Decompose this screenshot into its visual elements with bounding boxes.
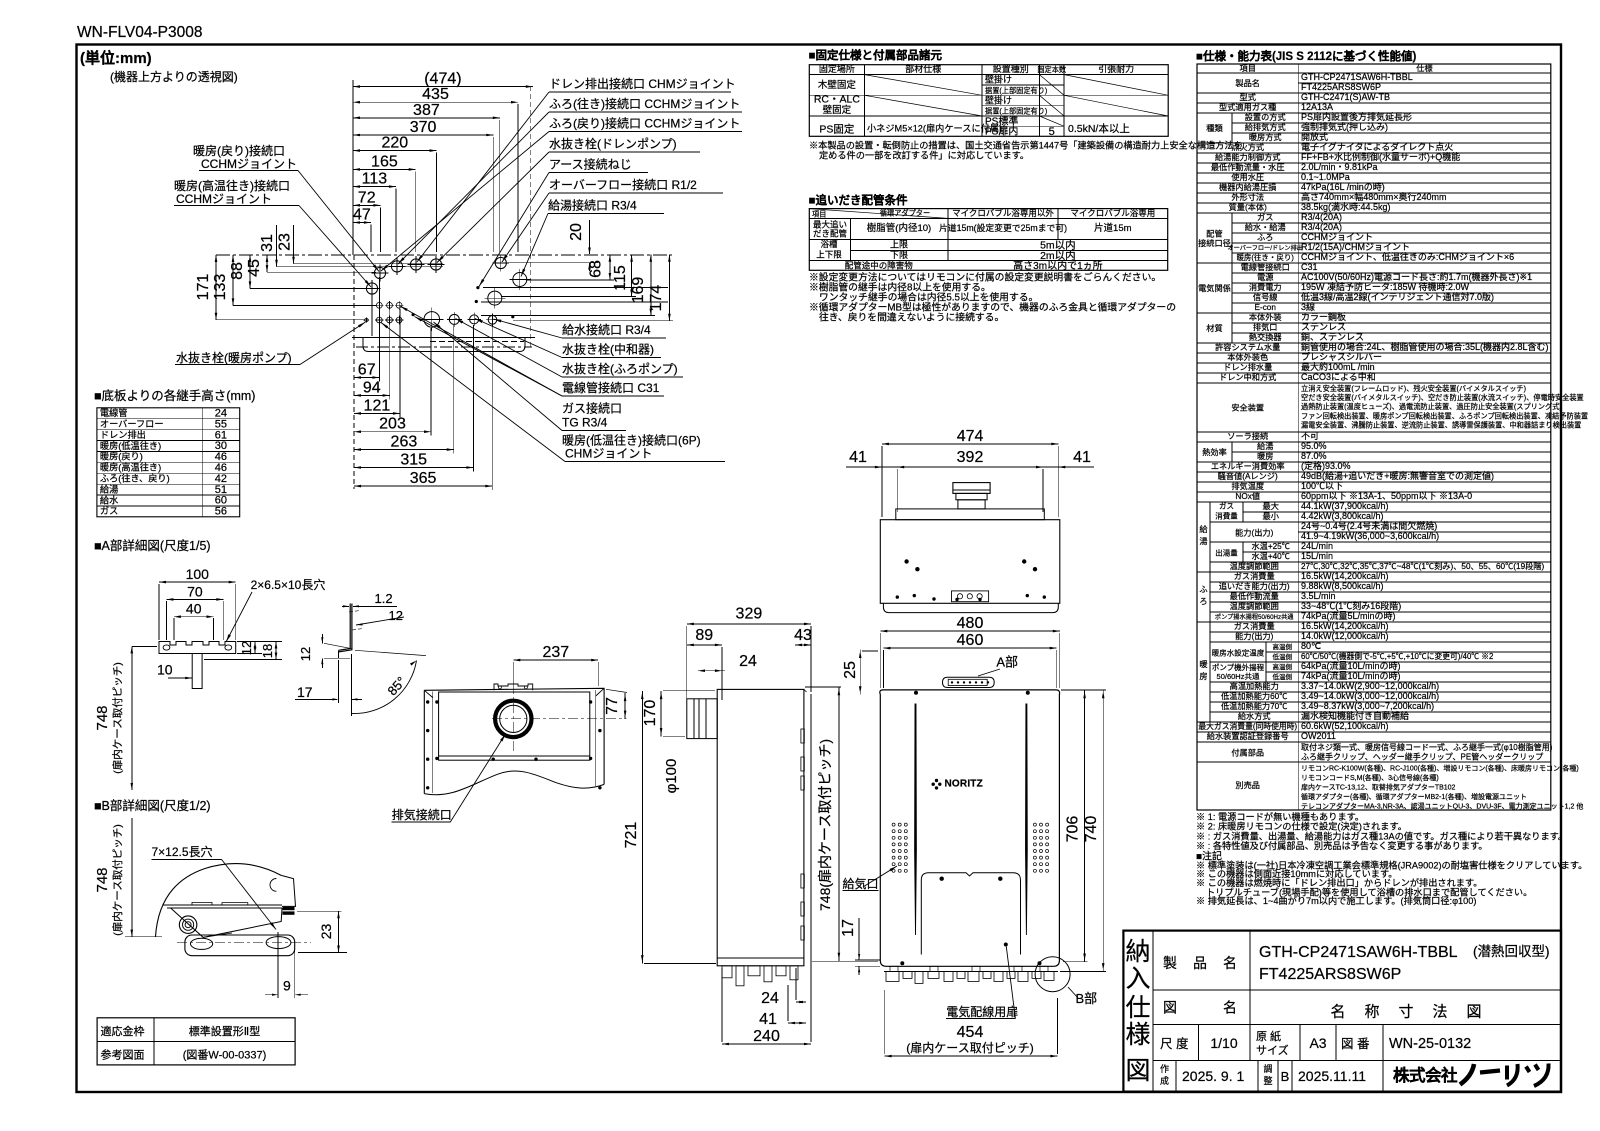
svg-text:往き、戻りを間違えないように接続する。: 往き、戻りを間違えないように接続する。 — [819, 311, 1004, 324]
side dim 24 bottom — [796, 1001, 806, 1003]
svg-text:CHMジョイント: CHMジョイント — [565, 447, 652, 461]
svg-text:NOx値: NOx値 — [1235, 491, 1260, 501]
svg-text:748(扉内ケース取付ピッチ): 748(扉内ケース取付ピッチ) — [817, 739, 833, 911]
svg-text:ソーラ接続: ソーラ接続 — [1227, 431, 1268, 441]
svg-text:40: 40 — [186, 601, 202, 617]
side dim 240 bottom — [722, 1043, 811, 1045]
svg-text:暖房水設定温度: 暖房水設定温度 — [1212, 648, 1265, 658]
joint height table — [97, 408, 240, 517]
svg-text:240: 240 — [753, 1028, 780, 1045]
svg-text:暖: 暖 — [1199, 660, 1207, 669]
svg-text:113: 113 — [362, 171, 388, 188]
svg-text:給水装置認証登録番号: 給水装置認証登録番号 — [1207, 731, 1289, 741]
drain plug hole — [365, 318, 369, 322]
svg-text:PS扉内設置後方排気延長形: PS扉内設置後方排気延長形 — [1301, 111, 1412, 122]
svg-text:暖房(往き・戻り): 暖房(往き・戻り) — [1236, 252, 1294, 262]
svg-text:※ 1: 電源コードが無い機種もあります。: ※ 1: 電源コードが無い機種もあります。 — [1196, 811, 1364, 822]
svg-text:部材仕様: 部材仕様 — [905, 63, 941, 74]
svg-text:ドレン排出: ドレン排出 — [100, 429, 146, 440]
svg-text:50/60Hz共通: 50/60Hz共通 — [1217, 671, 1260, 681]
svg-text:ステンレス: ステンレス — [1301, 322, 1346, 332]
svg-text:浴槽: 浴槽 — [820, 239, 838, 249]
top view dim 474 — [882, 443, 1058, 445]
dim 94 bottom — [354, 394, 390, 396]
svg-text:89: 89 — [695, 627, 713, 644]
svg-text:循環アダプター: 循環アダプター — [880, 209, 930, 218]
dim 23 — [293, 225, 295, 264]
svg-text:12: 12 — [298, 647, 313, 661]
svg-text:外形寸法: 外形寸法 — [1231, 192, 1264, 202]
svg-text:72: 72 — [358, 189, 376, 206]
svg-text:170: 170 — [642, 700, 659, 727]
svg-text:※ 2: 床暖房リモコンの仕様で設定(決定)されます。: ※ 2: 床暖房リモコンの仕様で設定(決定)されます。 — [1196, 821, 1407, 832]
svg-text:435: 435 — [422, 86, 449, 103]
bottom tray lip — [363, 337, 525, 351]
svg-text:据置(上部固定有り): 据置(上部固定有り) — [985, 107, 1047, 116]
svg-text:熱交換器: 熱交換器 — [1249, 332, 1282, 342]
svg-text:70: 70 — [187, 583, 203, 599]
dim 387 top — [353, 117, 500, 119]
B-detail vertical pitch 748 — [131, 818, 133, 937]
svg-text:給水・給湯: 給水・給湯 — [1245, 222, 1286, 232]
svg-text:給湯: 給湯 — [100, 483, 118, 494]
dim 165 top — [353, 168, 416, 170]
svg-text:ドレン中和方式: ドレン中和方式 — [1219, 372, 1276, 382]
svg-text:配管: 配管 — [1206, 229, 1222, 239]
svg-text:3.49~14.0kW(3,000~12,000kcal/h: 3.49~14.0kW(3,000~12,000kcal/h) — [1301, 691, 1439, 701]
left dimension reference line — [352, 80, 354, 255]
svg-text:AC100V(50/60Hz)電源コード長さ:約1.7m(機: AC100V(50/60Hz)電源コード長さ:約1.7m(機器外長さ)※1 — [1301, 271, 1532, 282]
svg-text:■A部詳細図(尺度1/5): ■A部詳細図(尺度1/5) — [94, 538, 211, 553]
svg-text:68: 68 — [588, 260, 605, 278]
svg-text:60.6kW(52,100kcal/h): 60.6kW(52,100kcal/h) — [1301, 721, 1389, 731]
svg-text:41: 41 — [1073, 449, 1091, 466]
B部 circle — [1035, 957, 1070, 992]
svg-text:型式適用ガス種: 型式適用ガス種 — [1219, 102, 1276, 112]
svg-text:給湯接続口 R3/4: 給湯接続口 R3/4 — [548, 198, 637, 213]
svg-text:暖房(戻り): 暖房(戻り) — [100, 451, 143, 462]
svg-text:7×12.5長穴: 7×12.5長穴 — [152, 844, 213, 859]
svg-text:強制排気式(押し込み): 強制排気式(押し込み) — [1301, 121, 1388, 132]
svg-text:能力(出力): 能力(出力) — [1235, 528, 1273, 538]
dim 315 bottom — [354, 467, 473, 469]
svg-text:FT4225ARS8SW6P: FT4225ARS8SW6P — [1259, 966, 1401, 983]
svg-text:立消え安全装置(フレームロッド)、残火安全装置(バイメタルス: 立消え安全装置(フレームロッド)、残火安全装置(バイメタルスイッチ) — [1301, 384, 1526, 393]
svg-text:※ この機器は燃焼時に「ドレン排出口」からドレンが排出されま: ※ この機器は燃焼時に「ドレン排出口」からドレンが排出されます。 — [1196, 877, 1482, 888]
spec group 給湯 — [1209, 502, 1211, 572]
svg-text:電気関係: 電気関係 — [1198, 283, 1231, 293]
title block frame — [1123, 931, 1561, 1092]
extension line — [492, 137, 494, 252]
svg-text:9.88kW(8,500kcal/h): 9.88kW(8,500kcal/h) — [1301, 581, 1384, 591]
svg-text:電源: 電源 — [1257, 273, 1273, 282]
svg-text:A部: A部 — [996, 655, 1018, 670]
side exhaust duct — [687, 699, 717, 739]
svg-text:追いだき能力(出力): 追いだき能力(出力) — [1219, 581, 1290, 591]
side dim 24 — [698, 670, 725, 672]
svg-text:信号線: 信号線 — [1253, 292, 1278, 302]
svg-text:片道15m(設定変更で25mまで可): 片道15m(設定変更で25mまで可) — [939, 222, 1067, 233]
svg-text:空だき安全装置(バイメタルスイッチ)、空だき防止装置(水流ス: 空だき安全装置(バイメタルスイッチ)、空だき防止装置(水流スイッチ)、停電時安全… — [1301, 393, 1584, 402]
svg-text:房: 房 — [1199, 671, 1207, 681]
svg-text:温度調節範囲: 温度調節範囲 — [1230, 561, 1279, 571]
svg-text:ガス: ガス — [1257, 212, 1273, 222]
svg-text:64kPa(流量10L/minの時): 64kPa(流量10L/minの時) — [1301, 660, 1401, 671]
svg-text:付属部品: 付属部品 — [1231, 748, 1264, 758]
dim 31 — [276, 225, 278, 267]
svg-text:品: 品 — [1193, 955, 1207, 971]
header diagonal — [809, 209, 948, 219]
svg-text:オーバーフロー接続口 R1/2: オーバーフロー接続口 R1/2 — [549, 177, 697, 192]
svg-text:GTH-CP2471SAW6H-TBBL: GTH-CP2471SAW6H-TBBL — [1259, 944, 1458, 961]
svg-text:称: 称 — [1364, 1004, 1379, 1021]
svg-text:暖房(低温往き)接続口(6P): 暖房(低温往き)接続口(6P) — [562, 433, 701, 448]
svg-text:80℃: 80℃ — [1301, 641, 1321, 651]
svg-text:水温+40℃: 水温+40℃ — [1251, 551, 1289, 561]
side dim 41 bottom — [788, 1022, 806, 1024]
svg-text:暖房(低温往き): 暖房(低温往き) — [100, 440, 161, 451]
svg-text:消費電力: 消費電力 — [1249, 282, 1282, 292]
extension line — [430, 328, 432, 436]
svg-text:製品名: 製品名 — [1235, 78, 1260, 88]
extension line — [415, 171, 417, 252]
svg-text:169: 169 — [630, 277, 647, 304]
svg-text:※ : ガス消費量、出湯量、給湯能力はガス種13Aの値です: ※ : ガス消費量、出湯量、給湯能力はガス種13Aの値です。ガス種により若干異な… — [1196, 830, 1567, 841]
svg-text:(扉内ケース取付ピッチ): (扉内ケース取付ピッチ) — [906, 1041, 1033, 1055]
svg-text:水抜き栓(ふろポンプ): 水抜き栓(ふろポンプ) — [562, 361, 678, 376]
svg-text:テレコンアダプターMA-3,NR-3A、認湯ユニットQU-3: テレコンアダプターMA-3,NR-3A、認湯ユニットQU-3、DVU-3F、電力… — [1301, 802, 1583, 811]
wiring door — [921, 873, 1020, 955]
svg-text:31: 31 — [259, 234, 276, 252]
svg-text:本体外装: 本体外装 — [1249, 312, 1282, 322]
extension line — [436, 153, 438, 252]
svg-text:115: 115 — [612, 265, 629, 291]
svg-text:扉内ケースTC-13,12、取替排気アダプターTB102: 扉内ケースTC-13,12、取替排気アダプターTB102 — [1301, 783, 1456, 792]
svg-text:低温3線/高温2線(インテリジェント通信対7.0版): 低温3線/高温2線(インテリジェント通信対7.0版) — [1301, 291, 1494, 302]
svg-text:(機器上方よりの透視図): (機器上方よりの透視図) — [110, 69, 238, 84]
svg-text:27℃,30℃,32℃,35℃,37℃~48℃(1℃刻み)、: 27℃,30℃,32℃,35℃,37℃~48℃(1℃刻み)、50、55、60℃(… — [1301, 561, 1544, 571]
bottom holes — [449, 314, 459, 324]
svg-text:43: 43 — [794, 627, 812, 644]
top view inner dots — [904, 559, 908, 563]
svg-text:315: 315 — [400, 452, 427, 469]
svg-text:(定格)93.0%: (定格)93.0% — [1301, 460, 1351, 471]
svg-text:94: 94 — [363, 379, 381, 396]
svg-text:本体外装色: 本体外装色 — [1227, 352, 1268, 362]
svg-text:18: 18 — [260, 644, 275, 658]
svg-text:不可: 不可 — [1301, 431, 1319, 441]
svg-text:23: 23 — [277, 233, 294, 251]
spec group 熱効率 — [1231, 442, 1233, 462]
svg-text:給水: 給水 — [100, 494, 118, 505]
slot holes — [163, 645, 170, 650]
svg-text:図: 図 — [1125, 1057, 1150, 1085]
svg-text:別売品: 別売品 — [1235, 780, 1260, 790]
B right plate — [281, 875, 295, 906]
svg-text:点火方式: 点火方式 — [1231, 142, 1264, 152]
svg-text:B部: B部 — [1076, 991, 1098, 1006]
svg-text:(図番W-00-0337): (図番W-00-0337) — [183, 1049, 267, 1062]
rear top edge bevels — [424, 690, 432, 697]
svg-text:2.0L/min・9.81kPa: 2.0L/min・9.81kPa — [1301, 162, 1378, 172]
svg-text:だき配管: だき配管 — [813, 229, 847, 239]
svg-text:電線管接続口 C31: 電線管接続口 C31 — [562, 380, 660, 395]
connector lines right dims — [526, 279, 614, 281]
svg-text:ふ: ふ — [1199, 585, 1207, 594]
svg-text:3.37~14.0kW(2,900~12,000kcal/h: 3.37~14.0kW(2,900~12,000kcal/h) — [1301, 681, 1439, 691]
svg-text:排気温度: 排気温度 — [1231, 481, 1264, 491]
dim 263 bottom — [354, 449, 454, 451]
svg-text:リモコンRC-K100W(各種)、RC-J100(各種)、増: リモコンRC-K100W(各種)、RC-J100(各種)、増設リモコン(各種)、… — [1301, 764, 1579, 773]
exhaust centerlines — [512, 684, 514, 752]
svg-text:GTH-C2471(S)AW-TB: GTH-C2471(S)AW-TB — [1301, 92, 1390, 102]
svg-text:454: 454 — [957, 1024, 984, 1041]
svg-text:給湯能力制御方式: 給湯能力制御方式 — [1215, 152, 1281, 162]
svg-text:1.2: 1.2 — [375, 591, 393, 606]
svg-text:R3/4(20A): R3/4(20A) — [1301, 212, 1342, 222]
svg-text:壁掛け: 壁掛け — [985, 74, 1012, 85]
svg-text:R3/4(20A): R3/4(20A) — [1301, 222, 1342, 232]
svg-text:取付ネジ類一式、暖房信号線コード一式、ふろ継手一式(φ10樹: 取付ネジ類一式、暖房信号線コード一式、ふろ継手一式(φ10樹脂管用) — [1301, 742, 1553, 752]
svg-text:小ネジM5×12(扉内ケースに付属): 小ネジM5×12(扉内ケースに付属) — [867, 123, 1002, 134]
bottom leg lines — [338, 650, 340, 658]
svg-text:法: 法 — [1432, 1004, 1447, 1021]
front view dim 25 — [859, 650, 861, 695]
svg-text:製: 製 — [1163, 955, 1177, 971]
hidden lines inside tray — [430, 341, 524, 343]
svg-text:77: 77 — [604, 697, 621, 715]
svg-text:60ppm以下 ※13A-1、50ppm以下 ※13A-0: 60ppm以下 ※13A-1、50ppm以下 ※13A-0 — [1301, 491, 1472, 501]
A bracket bar — [159, 642, 236, 654]
title rows — [1153, 989, 1561, 991]
dim 17 front — [858, 918, 860, 960]
svg-text:5: 5 — [1049, 126, 1055, 138]
svg-text:12A13A: 12A13A — [1301, 102, 1333, 112]
svg-text:固定場所: 固定場所 — [819, 63, 855, 74]
svg-text:熱効率: 熱効率 — [1202, 447, 1227, 457]
svg-text:電線管: 電線管 — [100, 407, 128, 418]
dim 10 — [191, 657, 193, 681]
svg-text:100℃以下: 100℃以下 — [1301, 481, 1343, 491]
svg-text:ふろ(往き)接続口 CCHMジョイント: ふろ(往き)接続口 CCHMジョイント — [549, 96, 740, 111]
small hole grid — [376, 302, 382, 308]
svg-text:ファン回転検出装置、暖房ポンプ回転検出装置、ふろポンプ回転検: ファン回転検出装置、暖房ポンプ回転検出装置、ふろポンプ回転検出装置、凍結予防装置 — [1301, 411, 1588, 420]
dim 45 — [266, 255, 268, 272]
A-detail vertical pitch 748 — [131, 646, 133, 790]
extension line — [389, 309, 391, 399]
svg-text:木壁固定: 木壁固定 — [818, 79, 857, 91]
right cluster holes — [495, 257, 506, 268]
tiny vent dots — [412, 313, 415, 316]
svg-text:配管途中の障害物: 配管途中の障害物 — [845, 260, 914, 270]
svg-text:漏電安全装置、沸騰防止装置、逆流防止装置、誘導雷保護装置、中: 漏電安全装置、沸騰防止装置、逆流防止装置、誘導雷保護装置、中和器詰まり検出装置 — [1301, 420, 1581, 429]
right vertical dashed edge — [530, 86, 532, 347]
svg-text:706: 706 — [1065, 816, 1082, 843]
dim 47 top — [353, 222, 371, 224]
top view dim 41/392/41 — [846, 466, 1094, 468]
svg-text:暖房(戻り)接続口: 暖房(戻り)接続口 — [193, 143, 285, 158]
svg-text:33~48℃(1℃刻み16段階): 33~48℃(1℃刻み16段階) — [1301, 600, 1401, 611]
svg-text:漏水検知機能付き自動補給: 漏水検知機能付き自動補給 — [1301, 710, 1409, 721]
svg-text:ドレン排水量: ドレン排水量 — [1223, 362, 1272, 372]
svg-text:使用水圧: 使用水圧 — [1231, 172, 1264, 182]
svg-text:入: 入 — [1125, 965, 1150, 993]
svg-text:整: 整 — [1263, 1075, 1272, 1086]
B fan outer arc — [156, 864, 282, 937]
side dim 170 — [660, 691, 662, 737]
side dim 721 — [641, 691, 643, 964]
svg-text:引張耐力: 引張耐力 — [1098, 63, 1134, 74]
centerline (wall line) — [216, 254, 672, 256]
svg-text:高温加熱能力: 高温加熱能力 — [1230, 681, 1279, 691]
svg-text:88: 88 — [229, 262, 246, 280]
svg-text:マイクロバブル浴専用以外: マイクロバブル浴専用以外 — [952, 208, 1054, 218]
svg-text:樹脂管(内径10): 樹脂管(内径10) — [867, 222, 931, 234]
svg-text:定める件の一部を改訂する件」に対応しています。: 定める件の一部を改訂する件」に対応しています。 — [819, 150, 1029, 161]
B pivot circle — [179, 916, 197, 934]
wavy break line — [424, 771, 604, 795]
svg-text:3.5L/min: 3.5L/min — [1301, 591, 1336, 601]
side bottom fittings — [717, 957, 804, 959]
svg-text:調: 調 — [1263, 1063, 1272, 1074]
svg-text:740: 740 — [1083, 816, 1100, 843]
extension from heating hole — [371, 292, 373, 336]
svg-text:3線: 3線 — [1301, 301, 1315, 312]
top view top lip — [896, 509, 1045, 520]
dim 220 top — [353, 150, 437, 152]
85 deg arc — [352, 661, 417, 714]
svg-text:174: 174 — [648, 285, 665, 312]
svg-text:121: 121 — [364, 397, 391, 414]
dim (474) top — [353, 86, 533, 88]
svg-text:60℃/50℃(機器側で-5℃,+5℃,+10℃に変更可)/: 60℃/50℃(機器側で-5℃,+5℃,+10℃に変更可)/40℃ ※2 — [1301, 651, 1493, 661]
svg-text:暖房方式: 暖房方式 — [1249, 132, 1282, 142]
svg-text:23: 23 — [318, 924, 334, 940]
svg-text:暖房(高温往き): 暖房(高温往き) — [100, 462, 161, 473]
svg-text:高温側: 高温側 — [1272, 662, 1292, 671]
dim 23 — [297, 910, 342, 912]
svg-text:オーバーフロー: オーバーフロー — [100, 419, 164, 429]
svg-text:TG R3/4: TG R3/4 — [562, 416, 608, 430]
svg-text:195W 凍結予防ヒータ:185W 待機時:2.0W: 195W 凍結予防ヒータ:185W 待機時:2.0W — [1301, 281, 1470, 292]
svg-text:ろ: ろ — [1199, 597, 1207, 606]
svg-text:銅、ステンレス: 銅、ステンレス — [1301, 331, 1364, 342]
reheating table grid — [809, 209, 1167, 271]
svg-text:ポンプ機外揚程: ポンプ機外揚程 — [1212, 662, 1265, 672]
svg-text:給: 給 — [1199, 524, 1208, 534]
svg-text:329: 329 — [736, 606, 763, 623]
dim 115 right — [631, 255, 633, 297]
spec group 種類 — [1231, 113, 1233, 143]
svg-text:ガス消費量: ガス消費量 — [1234, 571, 1275, 581]
svg-text:最低作動流量・水圧: 最低作動流量・水圧 — [1211, 162, 1285, 172]
svg-text:作: 作 — [1160, 1063, 1169, 1074]
svg-text:2×6.5×10長穴: 2×6.5×10長穴 — [251, 577, 326, 592]
svg-text:図: 図 — [1466, 1004, 1481, 1021]
svg-text:水温+25℃: 水温+25℃ — [1251, 541, 1289, 551]
spec group 材質 — [1231, 313, 1233, 343]
dim 68 right — [609, 255, 611, 280]
svg-text:24: 24 — [761, 990, 779, 1007]
svg-text:(単位:mm): (単位:mm) — [80, 49, 152, 67]
svg-text:低温加熱能力70℃: 低温加熱能力70℃ — [1221, 701, 1287, 711]
svg-text:※ 排気延長は、1~4曲がり7m以内で施工します。(排気筒口: ※ 排気延長は、1~4曲がり7m以内で施工します。(排気筒口径:φ100) — [1196, 895, 1476, 906]
svg-text:質量(本体): 質量(本体) — [1229, 202, 1267, 212]
svg-text:水抜き栓(暖房ポンプ): 水抜き栓(暖房ポンプ) — [176, 350, 292, 365]
svg-text:OW2011: OW2011 — [1301, 731, 1336, 741]
svg-text:原 紙: 原 紙 — [1256, 1029, 1281, 1043]
dim 365 bottom — [354, 485, 492, 487]
svg-text:74kPa(流量10L/minの時): 74kPa(流量10L/minの時) — [1301, 670, 1401, 681]
svg-text:220: 220 — [381, 135, 408, 152]
svg-text:循環アダプター(各種)、循環アダプターMB2-1(各種)、増: 循環アダプター(各種)、循環アダプターMB2-1(各種)、増設電源ユニット — [1301, 792, 1527, 801]
svg-text:A3: A3 — [1309, 1035, 1326, 1051]
connector lines 31/23 — [277, 266, 444, 268]
B base plate — [185, 935, 295, 956]
svg-text:392: 392 — [957, 449, 984, 466]
side top extension to pitch dim — [805, 686, 841, 688]
svg-text:370: 370 — [410, 119, 437, 136]
svg-text:24号~0.4号(2.4号未満は間欠燃焼): 24号~0.4号(2.4号未満は間欠燃焼) — [1301, 520, 1437, 531]
svg-text:名: 名 — [1223, 955, 1237, 971]
svg-text:参考図面: 参考図面 — [101, 1048, 145, 1062]
svg-text:※本製品の設置・転倒防止の措置は、国土交通省告示第1447号: ※本製品の設置・転倒防止の措置は、国土交通省告示第1447号「建築設備の構造耐力… — [809, 140, 1243, 151]
rear top tab — [494, 684, 533, 690]
svg-text:10: 10 — [157, 662, 173, 678]
svg-text:WN-25-0132: WN-25-0132 — [1389, 1036, 1471, 1052]
spec group ふろ — [1209, 572, 1211, 622]
svg-text:17: 17 — [297, 684, 313, 700]
dim 72 top — [353, 204, 380, 206]
svg-text:ガス接続口: ガス接続口 — [562, 401, 622, 416]
shared pitch dim 748 between views — [838, 687, 840, 961]
spec group 電気関係 — [1231, 263, 1233, 313]
hinge pin black bars — [283, 907, 295, 910]
top view bottom tray — [883, 603, 1058, 612]
svg-text:型式: 型式 — [1240, 92, 1256, 102]
svg-text:サイズ: サイズ — [1256, 1043, 1289, 1057]
svg-text:※ : 各特性値及び付属部品、別売品は予告なく変更する事が: ※ : 各特性値及び付属部品、別売品は予告なく変更する事があります。 — [1196, 840, 1488, 851]
svg-text:CaCO3による中和: CaCO3による中和 — [1301, 371, 1376, 382]
front view dim 460 — [883, 647, 1056, 649]
svg-text:38.5kg(満水時:44.5kg): 38.5kg(満水時:44.5kg) — [1301, 201, 1391, 212]
top view body — [880, 520, 1060, 604]
svg-text:項目: 項目 — [1240, 64, 1256, 73]
fixing table grid — [809, 65, 1168, 137]
svg-text:高さ740mm×幅480mm×奥行240mm: 高さ740mm×幅480mm×奥行240mm — [1301, 191, 1447, 202]
svg-text:種類: 種類 — [1206, 123, 1223, 133]
svg-text:最大: 最大 — [1263, 501, 1279, 511]
bracket stem — [192, 654, 202, 689]
svg-text:CCHMジョイント: CCHMジョイント — [176, 192, 272, 206]
svg-text:R1/2(15A)/CHMジョイント: R1/2(15A)/CHMジョイント — [1301, 242, 1410, 252]
svg-text:図 番: 図 番 — [1341, 1037, 1370, 1051]
svg-text:748: 748 — [94, 705, 111, 730]
svg-text:湯: 湯 — [1199, 536, 1207, 546]
svg-text:項目: 項目 — [812, 210, 826, 219]
svg-text:リモコンコードS,M(各種)、3心信号線(各種): リモコンコードS,M(各種)、3心信号線(各種) — [1301, 773, 1439, 782]
svg-text:許容システム水量: 許容システム水量 — [1215, 342, 1280, 352]
svg-text:給湯: 給湯 — [1257, 441, 1273, 451]
svg-text:低温加熱能力60℃: 低温加熱能力60℃ — [1221, 691, 1287, 701]
svg-text:排気口: 排気口 — [1253, 322, 1278, 332]
front blades — [915, 704, 917, 935]
extension line — [399, 309, 401, 417]
svg-text:高温側: 高温側 — [1272, 642, 1292, 651]
svg-text:WN-FLV04-P3008: WN-FLV04-P3008 — [77, 24, 202, 41]
svg-text:マイクロバブル浴専用: マイクロバブル浴専用 — [1070, 208, 1155, 218]
rear side fold lines — [432, 692, 434, 794]
